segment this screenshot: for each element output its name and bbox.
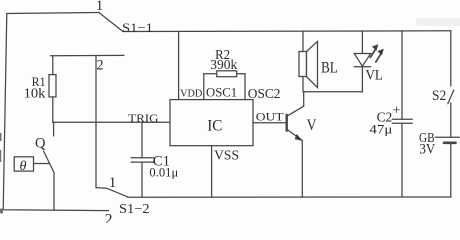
svg-text:3V: 3V xyxy=(419,141,435,157)
svg-text:+: + xyxy=(393,103,401,118)
svg-text:2: 2 xyxy=(105,211,113,223)
svg-text:OUT: OUT xyxy=(256,110,284,123)
svg-text:BL: BL xyxy=(321,60,338,77)
svg-text:VL: VL xyxy=(366,67,383,83)
svg-text:Q: Q xyxy=(35,136,46,152)
svg-text:θ: θ xyxy=(20,158,27,173)
svg-text:TRIG: TRIG xyxy=(128,111,159,124)
svg-text:S1−2: S1−2 xyxy=(119,202,150,216)
svg-text:VDD: VDD xyxy=(180,88,203,99)
svg-text:0.01μ: 0.01μ xyxy=(149,165,178,179)
svg-text:C2: C2 xyxy=(377,109,393,124)
svg-text:1: 1 xyxy=(96,0,104,14)
svg-text:10k: 10k xyxy=(24,86,47,101)
svg-text:S1−1: S1−1 xyxy=(122,21,153,35)
svg-text:1: 1 xyxy=(109,175,117,191)
svg-text:2: 2 xyxy=(97,57,104,73)
svg-text:V: V xyxy=(307,117,317,134)
svg-text:390k: 390k xyxy=(210,57,237,72)
svg-text:47μ: 47μ xyxy=(369,123,392,137)
svg-text:OSC1: OSC1 xyxy=(206,86,237,100)
svg-text:VSS: VSS xyxy=(214,147,239,162)
svg-text:OSC2: OSC2 xyxy=(248,86,281,101)
svg-text:IC: IC xyxy=(207,117,222,134)
svg-text:S2: S2 xyxy=(432,89,446,105)
